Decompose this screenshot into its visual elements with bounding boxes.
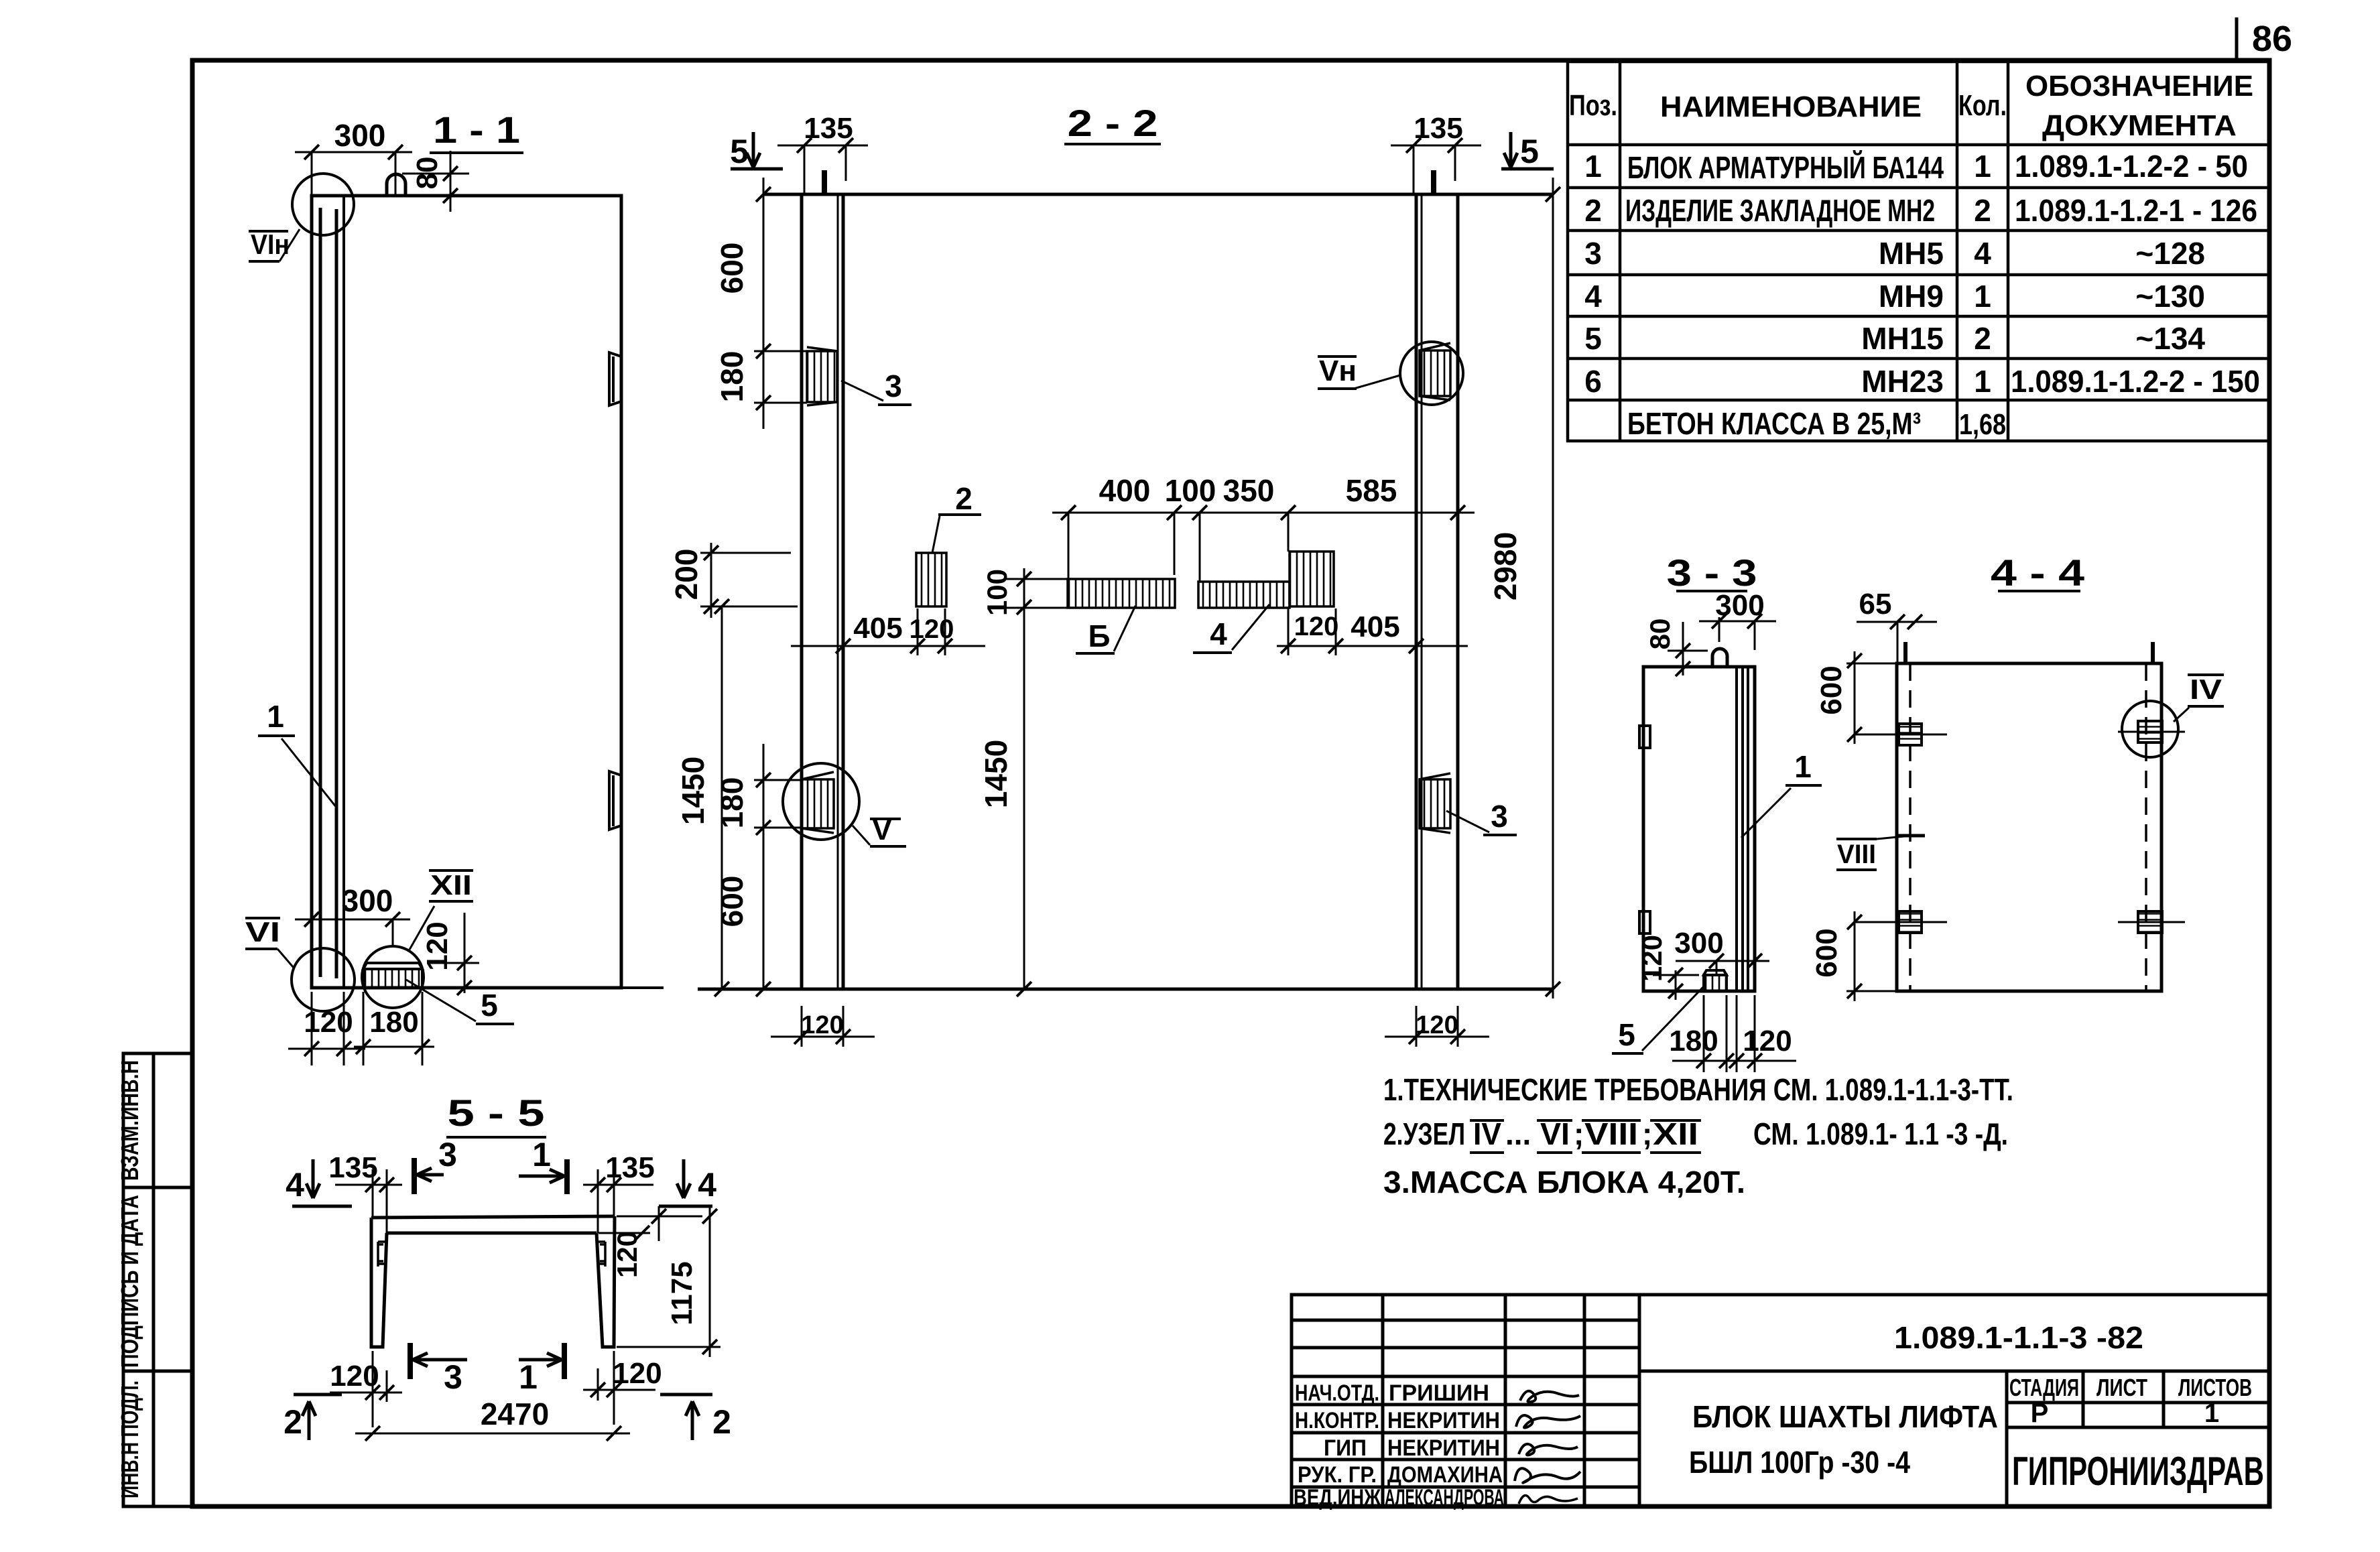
svg-text:1,68: 1,68 (1959, 408, 2006, 441)
svg-text:ГИП: ГИП (1324, 1435, 1367, 1461)
svg-text:100: 100 (1165, 473, 1216, 508)
embed patch МН5 lower left + detail circle V (802, 779, 834, 828)
svg-text:МН23: МН23 (1861, 364, 1944, 399)
top tick left column (822, 170, 827, 196)
svg-text:4: 4 (1210, 617, 1227, 651)
svg-text:БЛОК ШАХТЫ ЛИФТА: БЛОК ШАХТЫ ЛИФТА (1692, 1399, 1998, 1434)
bracket upper right edge (609, 352, 621, 405)
svg-text:2: 2 (955, 481, 973, 516)
svg-text:405: 405 (853, 612, 902, 645)
svg-text:1450: 1450 (979, 740, 1013, 808)
svg-text:МН15: МН15 (1861, 321, 1944, 356)
svg-text:5 - 5: 5 - 5 (448, 1092, 545, 1134)
svg-text:1.ТЕХНИЧЕСКИЕ ТРЕБОВАНИЯ СМ.: 1.ТЕХНИЧЕСКИЕ ТРЕБОВАНИЯ СМ. 1.089.1-1.1… (1383, 1072, 2013, 1107)
embed patch МН5 upper left (807, 347, 837, 405)
svg-text:600: 600 (714, 243, 749, 294)
svg-text:VIII: VIII (1837, 840, 1876, 869)
node underlines note 2 (1470, 1120, 1701, 1153)
section tick 1 top (5-5) (564, 1159, 570, 1194)
svg-text:5: 5 (1584, 321, 1602, 356)
svg-text:65: 65 (1859, 588, 1892, 621)
view 2-2 top slab line (763, 193, 1553, 196)
svg-text:1 - 1: 1 - 1 (433, 109, 520, 151)
svg-text:1.089.1-1.2-1 - 126: 1.089.1-1.2-1 - 126 (2015, 193, 2257, 228)
svg-text:ВЕД.ИНЖ: ВЕД.ИНЖ (1294, 1485, 1381, 1510)
svg-text:350: 350 (1223, 473, 1275, 508)
svg-text:Кол.: Кол. (1958, 89, 2007, 122)
svg-text:2980: 2980 (1488, 532, 1523, 600)
svg-text:2: 2 (1974, 193, 1991, 228)
ext of panel bottom line to right (621, 986, 664, 989)
svg-text:4: 4 (1974, 236, 1991, 271)
svg-text:ИНВ.Н ПОДЛ.: ИНВ.Н ПОДЛ. (116, 1380, 143, 1498)
section tick 3 top (5-5) (412, 1158, 417, 1194)
svg-text:120: 120 (1743, 1025, 1792, 1057)
svg-text:4: 4 (286, 1166, 304, 1204)
svg-text:1: 1 (267, 699, 284, 734)
svg-text:120: 120 (910, 615, 954, 644)
svg-text:5: 5 (730, 133, 749, 170)
U channel top slab (371, 1216, 615, 1218)
embed element 5 (МН15) in plan (363, 963, 422, 969)
svg-text:135: 135 (605, 1151, 654, 1184)
svg-text:1450: 1450 (676, 757, 710, 825)
svg-text:600: 600 (1810, 928, 1843, 977)
svg-text:СТАДИЯ: СТАДИЯ (2009, 1374, 2079, 1401)
svg-text:ОБОЗНАЧЕНИЕ: ОБОЗНАЧЕНИЕ (2025, 70, 2253, 103)
embed block 2 (МН2) (916, 553, 946, 606)
clamp embed left upper (1877, 734, 1947, 736)
svg-text:3: 3 (1491, 799, 1508, 834)
svg-text:ПОДПИСЬ И ДАТА: ПОДПИСЬ И ДАТА (116, 1195, 143, 1368)
svg-text:МН9: МН9 (1879, 279, 1944, 314)
svg-text:135: 135 (1414, 112, 1462, 145)
svg-text:БШЛ 100Гр -30 -4: БШЛ 100Гр -30 -4 (1689, 1445, 1910, 1480)
detail circle VIн (292, 174, 354, 235)
svg-text:400: 400 (1099, 473, 1151, 508)
svg-text:ГРИШИН: ГРИШИН (1389, 1380, 1489, 1406)
svg-text:БЕТОН КЛАССА В 25,М³: БЕТОН КЛАССА В 25,М³ (1627, 406, 1921, 441)
view 2-2 bottom line (698, 988, 1553, 991)
svg-text:300: 300 (1674, 927, 1723, 960)
svg-text:180: 180 (369, 1006, 418, 1039)
left edge tab lower (1639, 911, 1650, 933)
code cell bottom line (1639, 1370, 2269, 1373)
svg-text:3.МАССА БЛОКА 4,20Т.: 3.МАССА БЛОКА 4,20Т. (1383, 1165, 1745, 1200)
svg-text:180: 180 (1669, 1025, 1718, 1057)
title block horizontals left section (1292, 1319, 1639, 1322)
ext lines block 6 (1005, 578, 1068, 580)
svg-text:1175: 1175 (666, 1261, 698, 1325)
svg-text:300: 300 (334, 118, 386, 153)
svg-text:~128: ~128 (2135, 236, 2205, 271)
svg-text:2470: 2470 (481, 1397, 549, 1431)
top tick right column (1431, 170, 1436, 196)
svg-text:2.УЗЕЛ: 2.УЗЕЛ (1383, 1116, 1465, 1151)
detail circle XII (362, 946, 424, 1008)
svg-text:НАИМЕНОВАНИЕ: НАИМЕНОВАНИЕ (1660, 90, 1922, 123)
svg-text:135: 135 (328, 1151, 377, 1184)
svg-text:5: 5 (481, 988, 498, 1023)
signature row 4 (1515, 1468, 1580, 1483)
svg-text:ВЗАМ.ИНВ.Н: ВЗАМ.ИНВ.Н (116, 1060, 143, 1181)
svg-text:1: 1 (532, 1136, 551, 1173)
U channel left leg (371, 1218, 387, 1347)
svg-text:ДОМАХИНА: ДОМАХИНА (1387, 1462, 1503, 1488)
signature row 2 (1516, 1415, 1580, 1428)
svg-text:2: 2 (712, 1403, 731, 1441)
svg-text:ГИПРОНИИЗДРАВ: ГИПРОНИИЗДРАВ (2012, 1449, 2264, 1494)
dashed line right (2145, 663, 2147, 991)
svg-text:СМ. 1.089.1- 1.1 -3 -Д.: СМ. 1.089.1- 1.1 -3 -Д. (1753, 1116, 2008, 1151)
svg-text:3: 3 (444, 1358, 462, 1396)
clamp embed right upper + circle IV (2118, 731, 2185, 733)
svg-text:120: 120 (1416, 1011, 1458, 1039)
svg-text:Поз.: Поз. (1569, 89, 1617, 122)
detail circle VI (bottom left) (292, 948, 355, 1011)
svg-text:~130: ~130 (2135, 279, 2205, 314)
tab inside left leg (378, 1242, 387, 1267)
svg-text:2: 2 (1974, 321, 1991, 356)
clamp embed left lower (1877, 921, 1947, 923)
svg-text:IV: IV (2190, 673, 2222, 705)
svg-text:600: 600 (714, 876, 749, 927)
svg-text:180: 180 (714, 351, 749, 403)
svg-text:...: ... (1505, 1116, 1531, 1151)
svg-text:6: 6 (1584, 364, 1602, 399)
svg-text:5: 5 (1520, 133, 1539, 170)
section tick 1 bottom (5-5) (562, 1343, 567, 1379)
embed block right (МН2) (1290, 552, 1334, 606)
top tick right (4-4) (2151, 642, 2155, 662)
svg-text:1: 1 (1974, 149, 1991, 184)
svg-text:585: 585 (1346, 473, 1397, 508)
svg-text:4: 4 (1584, 279, 1602, 314)
signature row 1 (1520, 1391, 1579, 1402)
svg-text:ЛИСТОВ: ЛИСТОВ (2178, 1374, 2252, 1401)
signature row 3 (1519, 1444, 1578, 1455)
svg-text:1.089.1-1.2-2 - 50: 1.089.1-1.2-2 - 50 (2015, 149, 2248, 184)
svg-text:РУК. ГР.: РУК. ГР. (1298, 1462, 1377, 1488)
panel 4-4 outline (1897, 663, 2162, 991)
svg-text:ЛИСТ: ЛИСТ (2096, 1374, 2147, 1401)
svg-text:200: 200 (669, 549, 704, 600)
right wall column (1416, 194, 1458, 989)
svg-text:1: 1 (2204, 1399, 2219, 1428)
panel 1-1 rail lines (319, 208, 322, 977)
svg-text:3: 3 (438, 1136, 457, 1173)
svg-text:1: 1 (1584, 149, 1602, 184)
panel 3-3 outline (1643, 667, 1755, 991)
svg-text:НАЧ.ОТД.: НАЧ.ОТД. (1295, 1380, 1379, 1406)
embed block 4 (МН9) (1198, 582, 1290, 608)
svg-text:1.089.1-1.2-2 - 150: 1.089.1-1.2-2 - 150 (2011, 364, 2260, 399)
svg-text:1.089.1-1.1-3 -82: 1.089.1-1.1-3 -82 (1894, 1320, 2143, 1355)
embed patch МН5 lower right (1420, 779, 1450, 828)
svg-text:ИЗДЕЛИЕ ЗАКЛАДНОЕ МН2: ИЗДЕЛИЕ ЗАКЛАДНОЕ МН2 (1625, 193, 1935, 228)
svg-text:300: 300 (342, 883, 393, 918)
svg-text:86: 86 (2252, 19, 2292, 59)
svg-text:VI: VI (245, 916, 280, 948)
svg-text:1: 1 (1794, 749, 1812, 784)
svg-text:Н.КОНТР.: Н.КОНТР. (1295, 1408, 1379, 1433)
svg-text:БЛОК АРМАТУРНЫЙ БА144: БЛОК АРМАТУРНЫЙ БА144 (1627, 150, 1944, 185)
embed block 6 (МН23) (1068, 579, 1175, 608)
vertical before СТАДИЯ block (2005, 1371, 2009, 1506)
top tick left (4-4) (1903, 642, 1907, 662)
dashed line left (1909, 663, 1912, 991)
svg-text:2 - 2: 2 - 2 (1068, 102, 1158, 144)
svg-text:3: 3 (1584, 236, 1602, 271)
bracket lower right edge (609, 771, 621, 830)
svg-text:100: 100 (981, 569, 1013, 616)
lifting loop top (387, 174, 405, 196)
svg-text:МН5: МН5 (1879, 236, 1944, 271)
svg-text:3: 3 (885, 369, 902, 403)
parts table grid (1568, 62, 2269, 441)
svg-text:2: 2 (284, 1403, 302, 1441)
lifting loop 3-3 (1712, 649, 1727, 667)
svg-text:120: 120 (1294, 612, 1339, 641)
section tick 3 bottom (5-5) (408, 1343, 413, 1379)
svg-text:~134: ~134 (2135, 321, 2205, 356)
svg-text:НЕКРИТИН: НЕКРИТИН (1387, 1408, 1500, 1433)
panel 3-3 rail lines (1735, 667, 1738, 991)
left edge tab upper (1639, 726, 1650, 748)
svg-text:ДОКУМЕНТА: ДОКУМЕНТА (2042, 109, 2237, 142)
title block verticals left section (1381, 1295, 1385, 1506)
left wall column (802, 194, 843, 989)
svg-text:405: 405 (1351, 610, 1399, 643)
signature row 5 (1519, 1496, 1578, 1504)
U channel right leg (597, 1216, 615, 1347)
svg-text:1: 1 (1974, 279, 1991, 314)
tab inside right leg (597, 1242, 605, 1267)
svg-text:120: 120 (801, 1011, 843, 1039)
svg-text:Р: Р (2031, 1399, 2049, 1428)
embed patch МН5 upper right + detail circle Vн (1420, 350, 1450, 396)
svg-text:80: 80 (1644, 619, 1676, 650)
title block outer (1292, 1295, 2269, 1506)
svg-text:3 - 3: 3 - 3 (1667, 552, 1757, 594)
svg-text:АЛЕКСАНДРОВА: АЛЕКСАНДРОВА (1385, 1485, 1504, 1510)
svg-text:4 - 4: 4 - 4 (1991, 552, 2084, 594)
page number tick (2235, 17, 2239, 62)
svg-text:180: 180 (714, 777, 749, 829)
embed element 5 (3-3) (1704, 970, 1727, 975)
svg-text:1: 1 (1974, 364, 1991, 399)
svg-text:600: 600 (1815, 665, 1848, 714)
svg-text:НЕКРИТИН: НЕКРИТИН (1387, 1435, 1500, 1461)
svg-text:1: 1 (519, 1358, 538, 1396)
svg-text:Vн: Vн (1319, 354, 1357, 387)
panel 1-1 inner wall line (342, 196, 345, 988)
svg-text:2: 2 (1584, 193, 1602, 228)
panel 1-1 outline (312, 196, 621, 988)
svg-text:XII: XII (430, 869, 472, 901)
svg-text:4: 4 (698, 1166, 716, 1204)
stamp column boxes (left margin) (123, 1053, 192, 1506)
clamp embed right lower (2118, 921, 2185, 923)
svg-text:5: 5 (1618, 1017, 1635, 1052)
svg-text:Б: Б (1088, 619, 1110, 653)
СТАДИЯ block lines (2007, 1401, 2269, 1405)
